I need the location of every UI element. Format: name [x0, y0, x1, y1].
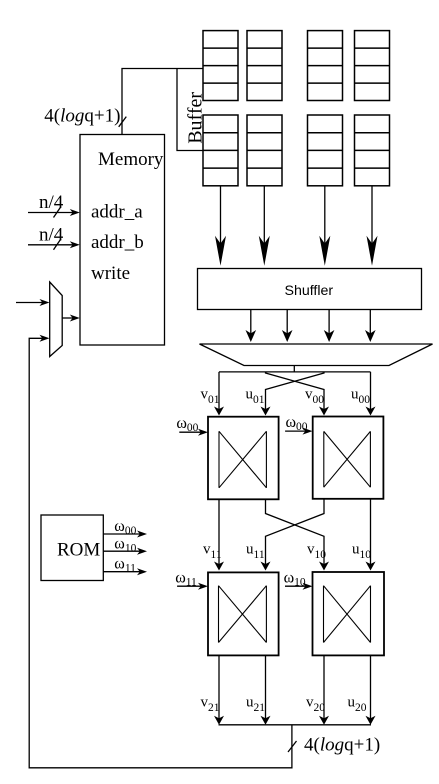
- svg-text:Buffer: Buffer: [185, 92, 207, 144]
- buffer output arrow 3: [319, 186, 330, 266]
- buffer column 3 group 2: [308, 115, 343, 186]
- svg-text:u21: u21: [246, 695, 265, 715]
- buffer bracket: [177, 69, 203, 151]
- wire BF1 out to BF3 in v11: [214, 499, 224, 570]
- svg-text:v21: v21: [201, 695, 220, 715]
- bus-width slash on memory wire: [119, 117, 127, 127]
- svg-text:ω10: ω10: [284, 569, 306, 588]
- feedback wire: [29, 338, 292, 768]
- mux input arrow 2 head: [40, 335, 50, 342]
- butterfly unit BF3: [208, 572, 279, 655]
- shuffler output arrow 1: [246, 310, 257, 343]
- ROM output arrow omega00: [103, 531, 147, 538]
- svg-text:u20: u20: [348, 695, 367, 715]
- svg-text:n/4: n/4: [39, 192, 64, 213]
- mux: [50, 282, 63, 357]
- svg-text:ω11: ω11: [175, 569, 197, 588]
- ROM output arrow omega10: [103, 548, 147, 555]
- output arrow u21: [261, 655, 271, 724]
- mux input arrow 1: [16, 299, 50, 306]
- svg-text:u11: u11: [246, 542, 265, 562]
- butterfly unit BF1: [208, 417, 279, 500]
- svg-text:write: write: [91, 263, 130, 284]
- svg-text:addr_a: addr_a: [91, 202, 143, 223]
- omega00 arrow into BF1: [179, 429, 208, 436]
- svg-text:ω00: ω00: [114, 518, 136, 537]
- mux output arrow to memory: [62, 315, 80, 322]
- svg-text:ROM: ROM: [57, 540, 100, 561]
- wire bus to BF1 input v01: [214, 372, 224, 416]
- funnel output stub: [293, 366, 295, 372]
- svg-text:n/4: n/4: [39, 225, 64, 246]
- butterfly unit BF2: [313, 417, 384, 499]
- buffer column 1 group 2: [203, 115, 238, 186]
- funnel trapezoid: [200, 344, 433, 366]
- svg-text:ω11: ω11: [114, 556, 136, 575]
- shuffler output arrow 2: [282, 310, 293, 343]
- memory block: [80, 135, 165, 346]
- output arrow v20: [319, 655, 329, 724]
- svg-text:4(logq+1): 4(logq+1): [44, 106, 120, 127]
- svg-text:4(logq+1): 4(logq+1): [304, 735, 380, 756]
- output arrow u20: [366, 655, 376, 724]
- svg-text:u10: u10: [352, 542, 371, 562]
- buffer column 4 group 1: [355, 31, 390, 101]
- buffer column 2 group 1: [247, 31, 282, 101]
- ROM block: [41, 515, 103, 581]
- output bus: [219, 724, 372, 726]
- crossing wire u01: [266, 372, 330, 416]
- crossing wire u11: [266, 499, 330, 570]
- svg-text:ω00: ω00: [286, 414, 308, 433]
- ROM output arrow omega11: [103, 568, 147, 575]
- omega11 arrow into BF3: [177, 583, 208, 590]
- butterfly unit BF4: [313, 572, 385, 655]
- bus-width slash on feedback drop: [288, 741, 297, 752]
- omega10 arrow into BF4: [285, 583, 313, 590]
- svg-text:ω00: ω00: [176, 415, 198, 434]
- shuffler output arrow 4: [365, 310, 376, 343]
- svg-text:u01: u01: [246, 387, 265, 407]
- buffer output arrow 2: [259, 186, 270, 266]
- n/4 input arrow a: [28, 207, 80, 218]
- buffer column 2 group 2: [247, 115, 282, 186]
- svg-text:addr_b: addr_b: [91, 232, 144, 253]
- output arrow v21: [214, 655, 224, 724]
- wire bus to BF2 input u00: [366, 372, 376, 416]
- svg-text:Shuffler: Shuffler: [285, 283, 334, 299]
- svg-text:v20: v20: [306, 695, 325, 715]
- crossing wire v00: [261, 372, 325, 416]
- shuffler output arrow 3: [324, 310, 335, 343]
- crossing wire v10: [261, 499, 325, 571]
- buffer column 3 group 1: [308, 31, 343, 101]
- svg-text:u00: u00: [351, 387, 370, 407]
- buffer output arrow 4: [367, 186, 378, 266]
- n/4 input arrow b: [28, 239, 80, 250]
- buffer column 4 group 2: [355, 115, 390, 186]
- wire BF2 out to BF4 in u10: [366, 499, 376, 571]
- svg-text:v01: v01: [201, 387, 220, 407]
- omega00 arrow into BF2: [285, 428, 312, 435]
- svg-text:Memory: Memory: [98, 149, 164, 170]
- shuffler block: [198, 269, 422, 310]
- distribution bus: [219, 371, 371, 373]
- svg-text:ω10: ω10: [114, 536, 136, 555]
- wire buffer to memory: [122, 69, 203, 135]
- buffer column 1 group 1: [203, 31, 238, 101]
- buffer output arrow 1: [215, 186, 226, 266]
